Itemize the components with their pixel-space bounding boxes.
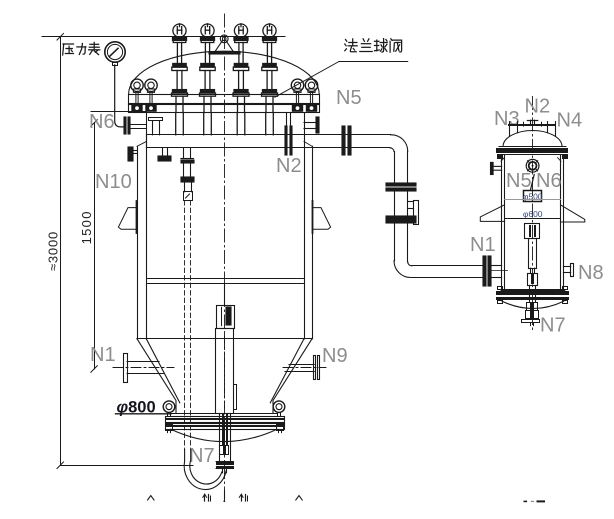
internal line 2 — [505, 218, 561, 220]
nozzle N3 legs — [509, 122, 511, 137]
bottom outlet flange — [216, 462, 234, 465]
vessel inner wall right — [304, 113, 306, 339]
flange ball valve label — [346, 40, 347, 42]
svg-text:N3: N3 — [494, 108, 520, 130]
support lug left — [136, 201, 138, 233]
svg-text:N8: N8 — [578, 262, 604, 284]
svg-text:N5: N5 — [336, 87, 362, 109]
side tap — [408, 201, 414, 203]
N1 flange pair right vessel — [483, 256, 486, 286]
bolt tab left — [166, 425, 173, 431]
right vessel bottom centerline marks — [524, 500, 526, 502]
dimension line 1500 — [94, 123, 96, 369]
internal line gray — [505, 199, 561, 201]
pipe elbow bottom — [394, 261, 411, 278]
N6 nozzle — [124, 117, 126, 134]
phi500 box — [524, 191, 542, 202]
valve V3 — [233, 24, 249, 135]
bolt tab right — [277, 425, 284, 431]
svg-text:N1: N1 — [470, 234, 496, 256]
svg-text:N5: N5 — [506, 170, 532, 192]
valve body on vertical pipe — [394, 190, 396, 216]
swing bolt 2 — [145, 79, 157, 112]
cone outer left — [137, 339, 176, 413]
jacket internal line 1 — [148, 278, 304, 280]
dished bottom head — [171, 429, 277, 441]
mixer symbol — [526, 159, 539, 172]
svg-text:N2: N2 — [525, 96, 551, 118]
right vessel lug right — [560, 205, 584, 222]
N10 nozzle — [128, 147, 130, 161]
right vessel dished bottom — [502, 301, 564, 308]
U-bend drain pipe — [184, 450, 226, 490]
jacket internal line 2 — [148, 283, 304, 285]
N5 nozzle stub — [304, 122, 316, 124]
svg-text:N10: N10 — [95, 171, 132, 193]
svg-text:N4: N4 — [557, 110, 583, 132]
right vessel internal block 1 — [525, 224, 540, 239]
pipe elbow top right — [391, 135, 408, 152]
bottom flange eyebolt left — [163, 401, 175, 413]
right vessel centerline — [532, 97, 534, 332]
N7 leader line — [60, 465, 193, 467]
right vessel bottom flange — [501, 289, 565, 291]
dome head main vessel — [129, 51, 320, 94]
gauge pipe — [115, 65, 125, 127]
swing bolt 4 — [305, 79, 317, 112]
vessel inner wall left — [146, 113, 148, 339]
internal stub A below flange — [162, 148, 164, 156]
top nozzle bar — [508, 124, 556, 126]
girth flange band C — [147, 134, 391, 136]
bottom flange stack — [171, 413, 277, 415]
bottom cut marks — [148, 496, 154, 500]
horizontal pipe to right vessel — [412, 265, 483, 267]
svg-text:N7: N7 — [540, 315, 566, 337]
svg-text:1500: 1500 — [79, 210, 94, 244]
support lug right — [312, 201, 314, 233]
cone inner left — [146, 339, 180, 403]
vertical pipe lower — [394, 223, 396, 261]
neck internal dip stub — [149, 118, 163, 121]
cone outer right — [273, 339, 312, 413]
swing bolt 1 — [131, 79, 143, 112]
right vessel lug left — [480, 205, 504, 222]
N6 leader — [91, 111, 146, 113]
svg-text:φ600: φ600 — [523, 209, 543, 219]
right vessel walls — [501, 155, 503, 289]
N2 flange pair 1 — [285, 126, 287, 155]
nozzle N1 left — [124, 354, 128, 383]
lifting lug — [209, 52, 240, 54]
svg-text:≈3000: ≈3000 — [45, 231, 60, 271]
svg-text:N1: N1 — [90, 344, 116, 366]
svg-text:N6: N6 — [536, 170, 562, 192]
right vessel internal tube — [529, 239, 537, 269]
cover clamp band B — [129, 104, 320, 113]
dip tube assembly — [183, 148, 185, 158]
nozzle N4 legs — [541, 122, 543, 126]
N2 nozzle pipe internal lines — [286, 113, 288, 126]
pipe flange joint upper — [386, 183, 416, 186]
N2 flange pair 2 — [342, 126, 345, 155]
bottom outlet valve — [219, 414, 221, 462]
right vessel top flange — [499, 146, 566, 148]
dimension line 3000 — [60, 37, 62, 466]
swing bolt 3 — [291, 79, 303, 112]
cover clamp band A — [129, 95, 320, 105]
top nozzle N2 stub — [527, 120, 537, 122]
svg-text:N7: N7 — [189, 445, 215, 467]
right vessel bottom drain — [527, 303, 538, 311]
svg-text:N9: N9 — [322, 345, 348, 367]
jacket outer wall left — [137, 146, 139, 338]
nozzle N9 right — [314, 356, 316, 380]
cone top line — [137, 338, 312, 340]
svg-text:N6: N6 — [89, 111, 115, 133]
pipe flange joint lower — [386, 216, 416, 219]
cone inner right — [270, 339, 304, 403]
right vessel dome — [503, 131, 562, 147]
pressure gauge label — [63, 43, 74, 45]
top extension line — [42, 36, 285, 38]
jacket outer wall right — [312, 146, 314, 338]
N8 nozzle — [563, 266, 570, 268]
svg-text:N2: N2 — [276, 155, 302, 177]
vertical pipe — [394, 152, 396, 184]
right vessel internal block 2 — [528, 274, 538, 286]
dip tube hidden lines — [184, 201, 186, 450]
valve V1 — [172, 24, 188, 135]
pressure gauge — [105, 42, 125, 62]
right vessel left nozzle stub — [491, 162, 494, 174]
center bottom assembly — [224, 284, 226, 306]
svg-text:φ500: φ500 — [523, 192, 543, 202]
centerline main vessel — [224, 14, 226, 503]
valve V2 — [200, 24, 216, 135]
valve V4 — [262, 24, 278, 135]
bottom flange eyebolt right — [273, 401, 285, 413]
